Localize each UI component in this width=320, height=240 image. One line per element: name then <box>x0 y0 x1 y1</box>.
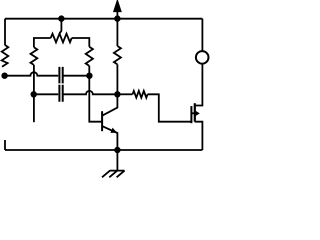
wire lower feedback with hop over R4 column <box>63 91 117 94</box>
wire R5 to MOSFET gate <box>148 94 191 121</box>
transistor Q2 body connector <box>191 112 194 114</box>
capacitor C1 plates <box>59 67 62 84</box>
ground chassis symbol <box>102 150 125 177</box>
power supply arrow <box>114 1 120 11</box>
wire bottom left stub <box>4 140 6 150</box>
transistor Q2 gate bar <box>190 106 192 123</box>
node dot ground junction <box>115 148 120 153</box>
node dot C1 right junction <box>87 73 92 78</box>
wire upper feedback with hop over R3 column <box>5 72 59 76</box>
transistor Q1 emitter arrow <box>110 128 117 133</box>
wire R2 right lead and corner <box>72 38 90 47</box>
wire arrow shaft <box>116 9 118 19</box>
transistor Q2 body arrow <box>195 110 200 116</box>
transistor Q1 collector <box>102 94 117 115</box>
wire R3 bottom column to open end <box>33 65 35 122</box>
node A terminal dot <box>2 73 7 78</box>
transistor Q1 emitter <box>102 126 117 150</box>
node dot collector junction <box>115 92 120 97</box>
wire collector node to R5 <box>117 93 132 95</box>
wire R2 left lead and corner <box>34 38 51 47</box>
wire wiper from rail to R2 <box>60 19 62 34</box>
resistor R6 (collector load) <box>114 46 121 64</box>
wire right edge drop to terminal <box>201 19 203 51</box>
output terminal circle <box>196 51 209 64</box>
wire left edge drop from rail <box>4 19 6 46</box>
wire bottom rail <box>5 149 202 151</box>
resistor R5 (gate series) <box>133 91 148 98</box>
wire lower feedback C2 left <box>34 93 59 95</box>
wire R6 bottom to collector node <box>116 64 118 94</box>
node dot supply junction <box>115 16 120 21</box>
wire R4 bottom down to base corner <box>89 66 102 122</box>
resistor R3 (second vertical) <box>31 47 38 65</box>
wire terminal to MOSFET drain <box>195 64 203 106</box>
transistor Q2 channel bar <box>194 103 196 122</box>
wire C1 right to node B <box>63 75 89 77</box>
resistor R2 (horizontal trimmer) <box>51 34 72 43</box>
wire MOSFET source to bottom rail <box>195 122 203 150</box>
node dot wiper tap on rail <box>59 16 64 21</box>
resistor R1 (left vertical, open bottom) <box>2 45 9 67</box>
capacitor C2 plates <box>59 85 62 102</box>
node dot C2 left junction <box>31 92 36 97</box>
transistor Q1 base bar <box>101 111 103 131</box>
resistor R4 (third vertical) <box>86 47 93 66</box>
wire top supply rail <box>5 18 202 20</box>
wire R6 top lead from rail <box>116 19 118 46</box>
